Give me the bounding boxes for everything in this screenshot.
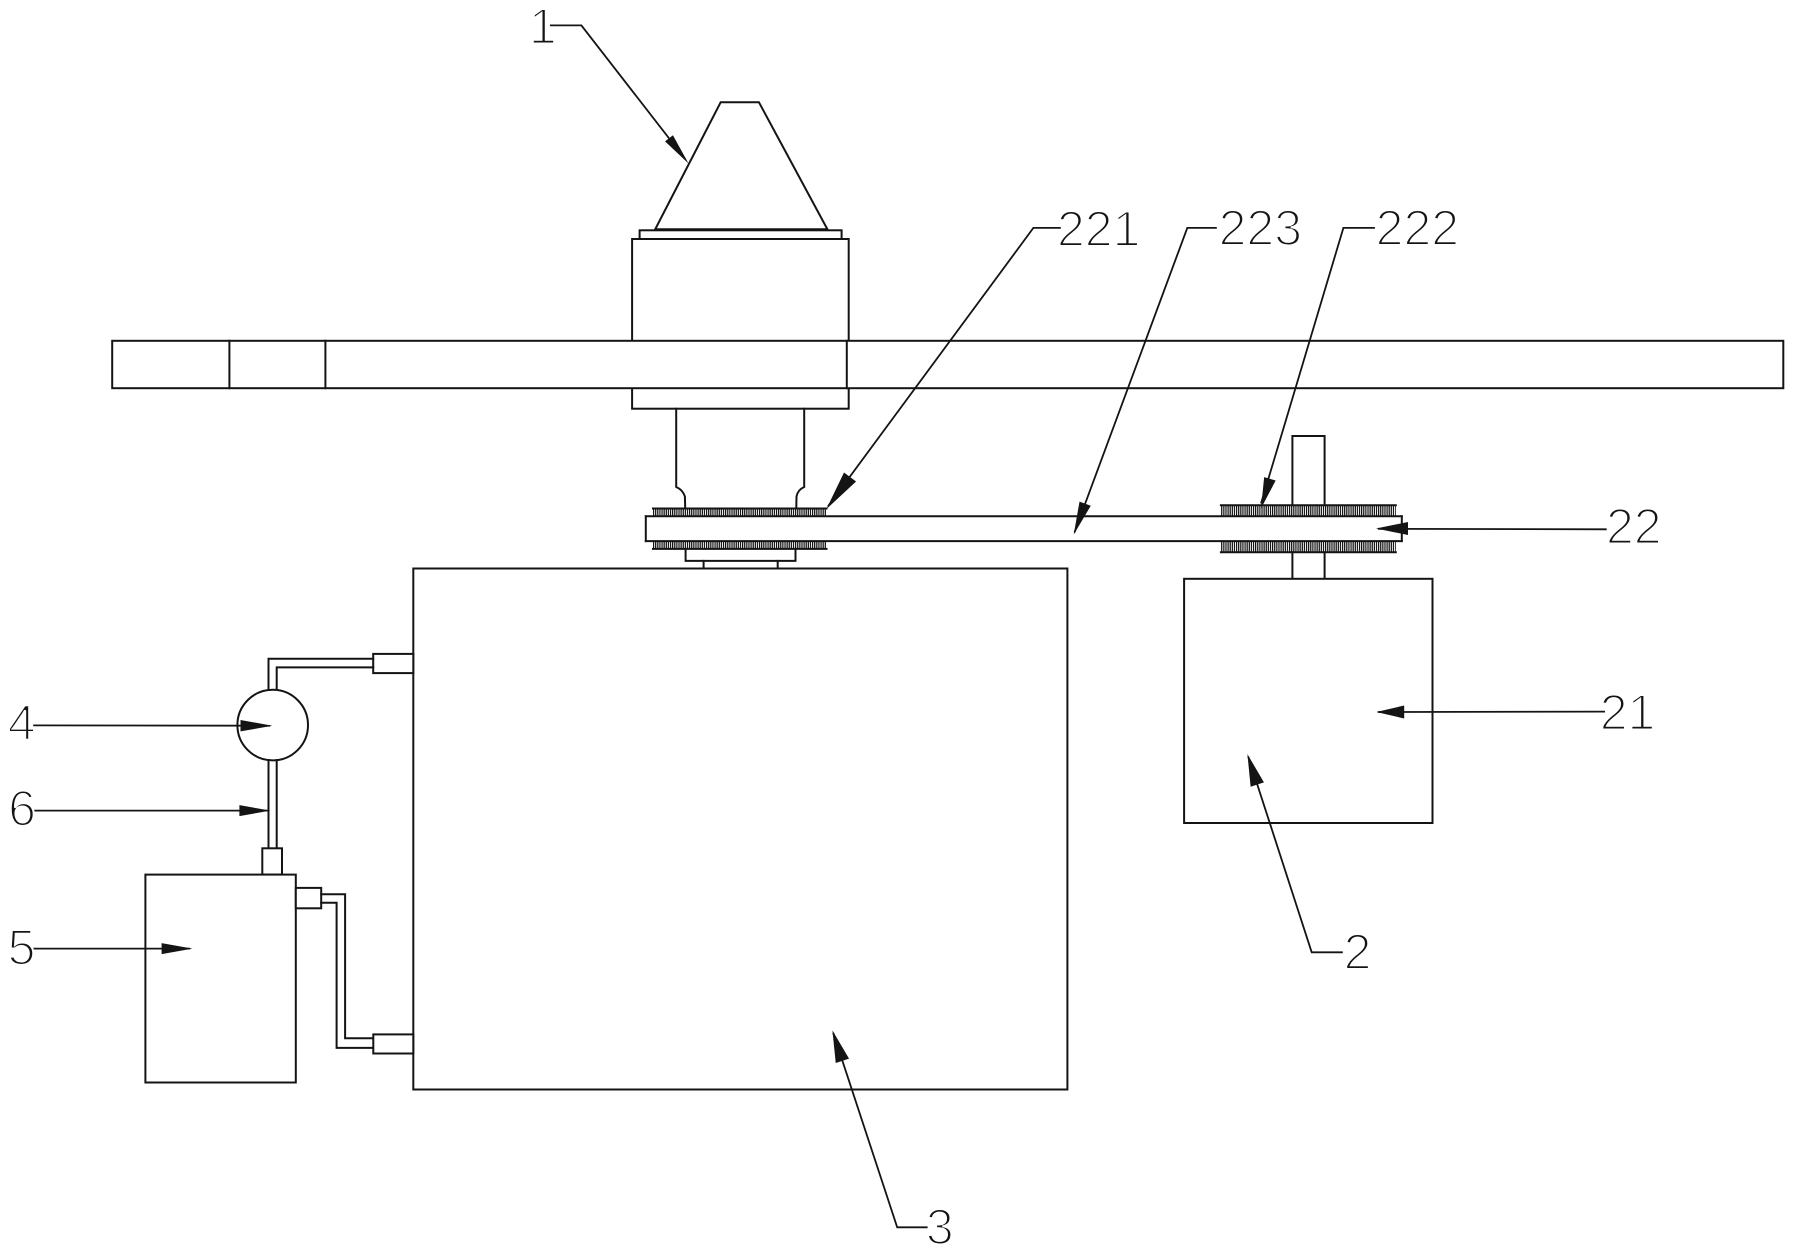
leader line 1 [550,25,686,159]
arrowhead 21 [1376,706,1404,719]
leader line 4 [33,724,270,726]
spindle right edge through bar [846,341,848,388]
belt left cap [645,516,647,541]
pulley 221 top teeth [653,509,827,517]
svg-text:222: 222 [1376,200,1459,256]
label 223 [1219,200,1302,256]
arrowhead 5 [162,943,193,954]
arrowhead 2 [1241,752,1264,787]
leader line 3 [833,1033,927,1228]
svg-text:22: 22 [1606,499,1662,555]
label 4 [8,695,36,751]
tank box 5 [145,875,295,1083]
pulley 221 bottom teeth [653,541,827,549]
pulley 221 lower neck [704,561,778,569]
leader line 221 [828,228,1061,506]
svg-text:2: 2 [1344,924,1372,980]
pulley 222 bottom teeth [1221,541,1396,552]
svg-text:223: 223 [1219,200,1302,256]
pipe coupling [262,848,282,874]
label 21 [1600,685,1656,741]
label 221 [1057,201,1140,257]
bar divider left 1 [228,341,230,388]
pulley 222 shaft upper [1292,436,1324,505]
arrowhead 223 [1068,502,1091,537]
pulley 222 top teeth [1221,505,1396,516]
leader line 223 [1075,228,1217,533]
base plate under cone [640,230,842,239]
cone head 1 (trapezoid) [655,102,827,229]
svg-text:1: 1 [529,0,557,55]
arrowhead 222 [1255,477,1275,510]
box 3 (machine base) [413,569,1067,1090]
leader line 2 [1248,757,1343,953]
S-pipe from box 5 to box 3 [321,894,373,1048]
lower pipe 6 [269,760,277,848]
leader line 5 [33,948,190,950]
arrowhead 3 [826,1028,849,1063]
spindle neck [676,409,804,509]
upper pipe to gauge [269,659,374,691]
svg-text:6: 6 [8,781,36,837]
svg-text:21: 21 [1600,685,1656,741]
pulley 222 shaft lower [1292,552,1324,579]
label 5 [8,920,36,976]
spindle body [632,239,849,409]
upper flange on box 3 [373,654,413,673]
leader line 6 [33,810,268,812]
belt 223 bottom line [646,540,1402,542]
svg-text:3: 3 [926,1199,954,1254]
arrowhead 6 [239,805,270,816]
belt 223 top line [646,515,1402,517]
arrowhead 221 [820,473,856,514]
stub on box 5 [296,888,321,908]
lower flange on box 3 [373,1034,413,1053]
svg-text:4: 4 [8,695,36,751]
belt right cap [1401,516,1403,541]
work table bar [112,341,1783,388]
label 1 [529,0,557,55]
pulley 221 hub [686,549,796,561]
arrowhead 1 [665,135,693,166]
leader line 21 [1378,711,1605,713]
gauge 4 (circle) [237,690,308,761]
label 222 [1376,200,1459,256]
svg-text:5: 5 [8,920,36,976]
leader line 222 [1261,228,1375,504]
label 2 [1344,924,1372,980]
bar divider left 2 [324,341,326,388]
arrowhead 22 [1376,522,1408,535]
label 3 [926,1199,954,1254]
svg-text:221: 221 [1057,201,1140,257]
leader line 22 [1378,528,1607,531]
motor box 21 [1184,579,1432,823]
arrowhead 4 [241,720,273,731]
label 22 [1606,499,1662,555]
label 6 [8,781,36,837]
